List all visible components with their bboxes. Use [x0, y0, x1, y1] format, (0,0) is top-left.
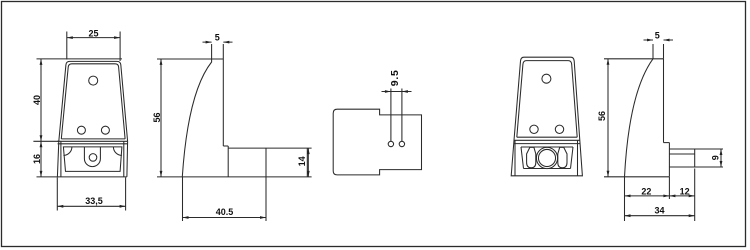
- separating line: [514, 139, 580, 141]
- cam inner circle: [538, 149, 555, 166]
- box inner contour: [521, 147, 573, 169]
- top line A (part top / extension): [37, 58, 123, 60]
- hole top: [542, 74, 551, 83]
- dim 40/16 vertical line: [40, 59, 42, 177]
- tab internal line: [669, 153, 694, 155]
- dim 5 line with outside arrows: [203, 41, 233, 43]
- svg-text:33,5: 33,5: [85, 196, 103, 206]
- tab right edge: [694, 149, 696, 167]
- svg-text:9.5: 9.5: [389, 69, 401, 86]
- box internal verticals: [515, 140, 578, 176]
- slot corner arc right: [113, 147, 122, 156]
- hole mid-right: [101, 126, 109, 134]
- svg-text:5: 5: [655, 30, 660, 40]
- svg-text:34: 34: [654, 205, 664, 215]
- extension below left: [624, 177, 626, 221]
- top edge with extension: [604, 58, 664, 60]
- dim 25 line: [67, 37, 120, 39]
- dim 22 line: [625, 195, 670, 197]
- cam wing right: [558, 147, 567, 168]
- dim 9.5 line with outside arrows: [382, 91, 412, 93]
- dim 56 line: [607, 59, 609, 177]
- svg-text:16: 16: [32, 154, 42, 164]
- tab bottom edge with extension: [669, 166, 723, 168]
- dim 33,5 line: [57, 205, 125, 207]
- bottom box internal verticals: [61, 141, 124, 177]
- cam wing left: [527, 147, 536, 168]
- trapezoid outer contour: [59, 61, 128, 141]
- svg-text:9: 9: [710, 155, 720, 160]
- extension below mid: [668, 177, 670, 199]
- dim 12 line: [669, 195, 694, 197]
- dim 40.5 line: [183, 217, 267, 219]
- step: [223, 145, 228, 147]
- svg-text:25: 25: [88, 29, 98, 39]
- top edge with extension: [157, 58, 223, 60]
- hole mid-left: [77, 126, 85, 134]
- box top line: [514, 143, 580, 145]
- box top line: [58, 143, 128, 145]
- dim 34 line: [625, 215, 695, 217]
- dim 9.5 extension lines: [391, 89, 402, 142]
- curved front edge: [182, 59, 211, 177]
- right edge lower: [668, 143, 670, 177]
- hole mid-left: [530, 125, 538, 133]
- svg-text:56: 56: [152, 112, 162, 122]
- U slot: [84, 147, 100, 167]
- extension below tab right: [694, 169, 696, 222]
- outer contour: [511, 57, 582, 176]
- right edge: [222, 59, 224, 146]
- outline: [333, 109, 421, 175]
- separating line: [57, 140, 127, 142]
- mid extension line: [33, 140, 59, 142]
- tab top edge with extension: [669, 148, 723, 150]
- internal vertical at step: [227, 146, 229, 177]
- curved front edge: [625, 59, 654, 177]
- bottom box sides: [57, 141, 127, 177]
- foot right edge: [306, 148, 308, 177]
- foot top edge with overrun: [228, 147, 311, 149]
- box inner bottom line: [524, 168, 571, 170]
- hole mid-right: [555, 125, 563, 133]
- right edge upper: [663, 59, 665, 143]
- hole right: [399, 141, 404, 146]
- dim 56 line: [160, 59, 162, 177]
- dim 5 line with outside arrows: [644, 39, 674, 41]
- step: [664, 142, 670, 144]
- dim 5 extension lines: [653, 44, 664, 59]
- dim 33,5 extension lines: [57, 178, 125, 211]
- dim 40.5 left extension: [182, 177, 184, 221]
- svg-text:56: 56: [597, 111, 607, 121]
- slot circle: [89, 154, 97, 162]
- inner contour: [517, 61, 577, 138]
- slot corner arc left: [63, 147, 72, 156]
- bottom edge with left extension: [37, 176, 127, 178]
- inner slot contour: [63, 147, 122, 172]
- svg-text:12: 12: [680, 186, 690, 196]
- internal vertical in foot / 40.5 right extension: [265, 148, 267, 221]
- dim 9 line: [720, 149, 722, 167]
- svg-text:14: 14: [297, 156, 307, 166]
- hole left: [388, 141, 393, 146]
- trapezoid inner contour: [61, 64, 125, 139]
- trapezoid inner bottom line: [61, 138, 125, 140]
- cam big circle: [536, 147, 557, 168]
- inner contour bottom line: [517, 136, 577, 138]
- bottom edge with extensions: [157, 176, 312, 178]
- svg-text:22: 22: [641, 186, 651, 196]
- box inner top line: [521, 146, 573, 148]
- bottom edge with extension: [604, 176, 669, 178]
- dim 5 extension lines: [212, 44, 224, 59]
- svg-text:5: 5: [215, 32, 220, 42]
- svg-text:40.5: 40.5: [216, 207, 234, 217]
- hole top: [89, 76, 98, 85]
- dim 25 extension lines: [67, 32, 120, 62]
- dim 14 line: [307, 148, 309, 177]
- svg-text:40: 40: [32, 95, 42, 105]
